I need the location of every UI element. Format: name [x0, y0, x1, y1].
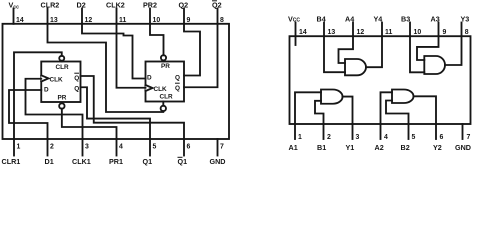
- svg-text:CLK2: CLK2: [106, 1, 125, 10]
- pin 13 lead: [323, 23, 325, 37]
- svg-text:B1: B1: [317, 143, 326, 152]
- svg-text:12: 12: [357, 29, 365, 36]
- svg-text:Y1: Y1: [346, 143, 355, 152]
- svg-text:A2: A2: [375, 143, 384, 152]
- svg-text:5: 5: [153, 143, 157, 150]
- svg-text:Q2: Q2: [179, 1, 189, 10]
- svg-text:D1: D1: [45, 157, 54, 166]
- svg-text:Q1: Q1: [143, 157, 153, 166]
- svg-text:A3: A3: [431, 15, 440, 24]
- svg-text:CLR: CLR: [160, 94, 174, 101]
- wire A1: pin 1 to G1 upper input: [295, 92, 321, 124]
- svg-text:PR: PR: [58, 95, 67, 102]
- U1a CLK input triangle: [41, 75, 48, 81]
- svg-text:A1: A1: [289, 143, 298, 152]
- svg-text:5: 5: [412, 134, 416, 141]
- U1b CLR bubble: [161, 106, 166, 111]
- wire CLR2: pin 13 to U1b CLR bubble: [48, 24, 164, 112]
- wire A3: pin 9 to G3 upper input: [417, 36, 439, 60]
- AND gate G4 (upper left): [345, 59, 366, 75]
- wire Y1: G1 output to pin 3: [343, 97, 353, 124]
- svg-text:D2: D2: [77, 1, 86, 10]
- U1b PR bubble: [161, 55, 166, 60]
- svg-text:13: 13: [328, 29, 336, 36]
- svg-text:Q2: Q2: [212, 1, 222, 10]
- pin 11 lead: [381, 23, 383, 37]
- wire CLK2: pin 11 to U1b CLK input: [117, 24, 146, 88]
- svg-text:3: 3: [85, 143, 89, 150]
- svg-text:PR2: PR2: [143, 1, 157, 10]
- svg-text:12: 12: [85, 17, 93, 24]
- svg-text:4: 4: [119, 143, 123, 150]
- svg-text:11: 11: [385, 29, 392, 36]
- svg-text:CLR1: CLR1: [2, 157, 21, 166]
- svg-text:B3: B3: [401, 15, 410, 24]
- wire A2: pin 4 to G2 upper input: [381, 92, 393, 124]
- AND gate G3 (upper right): [424, 56, 445, 74]
- svg-text:2: 2: [327, 134, 331, 141]
- svg-text:6: 6: [440, 134, 444, 141]
- svg-text:GND: GND: [210, 157, 226, 166]
- flip-flop U1b body: [146, 62, 185, 102]
- pin 9 lead: [438, 23, 440, 37]
- U1a CLR bubble: [59, 56, 64, 61]
- wire B2: pin 5 to G2 lower input: [386, 101, 409, 125]
- IC2 package outline (7408 quad AND): [290, 36, 471, 124]
- svg-text:Q: Q: [175, 75, 180, 82]
- svg-text:11: 11: [119, 17, 126, 24]
- svg-text:A4: A4: [345, 15, 354, 24]
- pin 4 lead: [116, 139, 118, 156]
- svg-text:2: 2: [50, 143, 54, 150]
- pin 2 lead: [323, 124, 325, 139]
- svg-text:14: 14: [16, 17, 24, 24]
- wire Q1: pin 5 to U1a Q output: [81, 87, 151, 139]
- svg-text:10: 10: [153, 17, 161, 24]
- pin 12 lead: [352, 23, 354, 37]
- wire Y4: G4 output to pin 11: [366, 36, 382, 67]
- pin 6 lead: [183, 139, 185, 156]
- pin 2 lead: [47, 139, 49, 156]
- svg-text:8: 8: [465, 29, 469, 36]
- svg-text:CLK1: CLK1: [72, 157, 91, 166]
- wire Q1bar: pin 6 to U1a Qbar output: [81, 76, 185, 139]
- pin 11 lead: [116, 9, 118, 24]
- svg-text:CLK: CLK: [50, 76, 64, 83]
- pin 9 lead: [183, 9, 185, 24]
- pin 10 lead: [149, 9, 151, 24]
- svg-text:PR1: PR1: [109, 157, 123, 166]
- pin 14 lead (VCC): [295, 23, 297, 46]
- pin 10 lead: [409, 23, 411, 37]
- pin 8 lead: [461, 23, 463, 37]
- svg-text:1: 1: [17, 143, 21, 150]
- pin 3 lead: [82, 139, 84, 156]
- wire B3: pin 10 to G3 lower input: [410, 36, 424, 72]
- svg-text:Q: Q: [175, 85, 180, 92]
- svg-text:CLK: CLK: [154, 86, 168, 93]
- wire B4: pin 13 to G4 lower input: [324, 36, 345, 72]
- svg-text:CLR: CLR: [56, 64, 70, 71]
- svg-text:9: 9: [443, 29, 447, 36]
- AND gate G1 (lower left): [321, 90, 343, 104]
- svg-text:13: 13: [50, 17, 58, 24]
- wire Y3: G3 output to pin 8: [445, 36, 462, 65]
- svg-text:14: 14: [299, 29, 307, 36]
- svg-text:3: 3: [356, 134, 360, 141]
- svg-text:7: 7: [220, 143, 224, 150]
- pin 5 lead: [408, 124, 410, 139]
- pin 13 lead: [47, 9, 49, 24]
- svg-text:9: 9: [187, 17, 191, 24]
- svg-text:Y4: Y4: [374, 15, 383, 24]
- wire Y2: G2 output to pin 6: [414, 96, 437, 124]
- wire A4: pin 12 to G4 upper input: [339, 36, 354, 63]
- svg-text:Y2: Y2: [433, 143, 442, 152]
- AND gate G2 (lower right): [392, 90, 414, 104]
- pin 7 lead (GND): [217, 139, 219, 156]
- pin 6 lead: [435, 124, 437, 139]
- svg-text:GND: GND: [455, 143, 471, 152]
- svg-text:D: D: [147, 75, 152, 82]
- pin 8 lead: [217, 9, 219, 24]
- svg-text:D: D: [44, 87, 49, 94]
- svg-text:Y3: Y3: [461, 15, 470, 24]
- svg-text:Q: Q: [74, 85, 79, 92]
- wire CLR1: pin 1 to U1a CLR bubble: [14, 52, 62, 139]
- svg-text:CLR2: CLR2: [41, 1, 60, 10]
- pin 5 lead: [149, 139, 151, 156]
- pin 7 lead (GND): [462, 124, 464, 139]
- pin 4 lead: [380, 124, 382, 139]
- svg-text:10: 10: [414, 29, 422, 36]
- wire Q2bar: pin 8 to U1b Qbar output: [184, 24, 218, 87]
- svg-text:6: 6: [187, 143, 191, 150]
- svg-text:1: 1: [298, 134, 302, 141]
- wire D1: pin 2 to U1a D input: [9, 90, 48, 139]
- flip-flop U1a body: [41, 62, 80, 103]
- pin 12 lead: [81, 9, 83, 24]
- pin 3 lead: [352, 124, 354, 139]
- wire PR1: pin 4 to U1a PR bubble: [62, 109, 117, 139]
- svg-text:4: 4: [384, 134, 388, 141]
- svg-text:B4: B4: [317, 15, 326, 24]
- pin 14 lead (Vcc): [13, 9, 15, 24]
- U1a PR bubble: [59, 103, 64, 108]
- svg-text:8: 8: [220, 17, 224, 24]
- pin 1 lead: [13, 139, 15, 156]
- svg-text:7: 7: [467, 134, 471, 141]
- wire Q2: pin 9 to U1b Q output: [184, 24, 200, 76]
- wire B1: pin 2 to G1 lower input: [315, 101, 324, 124]
- pin 1 lead: [294, 124, 296, 139]
- svg-text:Q1: Q1: [178, 157, 188, 166]
- svg-text:PR: PR: [161, 63, 170, 70]
- svg-text:Q: Q: [74, 75, 79, 82]
- IC1 package outline (7474 dual D flip-flop): [3, 24, 230, 139]
- U1b CLK input triangle: [146, 85, 153, 91]
- wire D2: pin 12 to U1b D input: [82, 24, 146, 79]
- wire PR2: pin 10 to U1b PR bubble: [150, 24, 164, 62]
- wire CLK1: pin 3 to U1a CLK input: [26, 79, 83, 139]
- svg-text:B2: B2: [401, 143, 410, 152]
